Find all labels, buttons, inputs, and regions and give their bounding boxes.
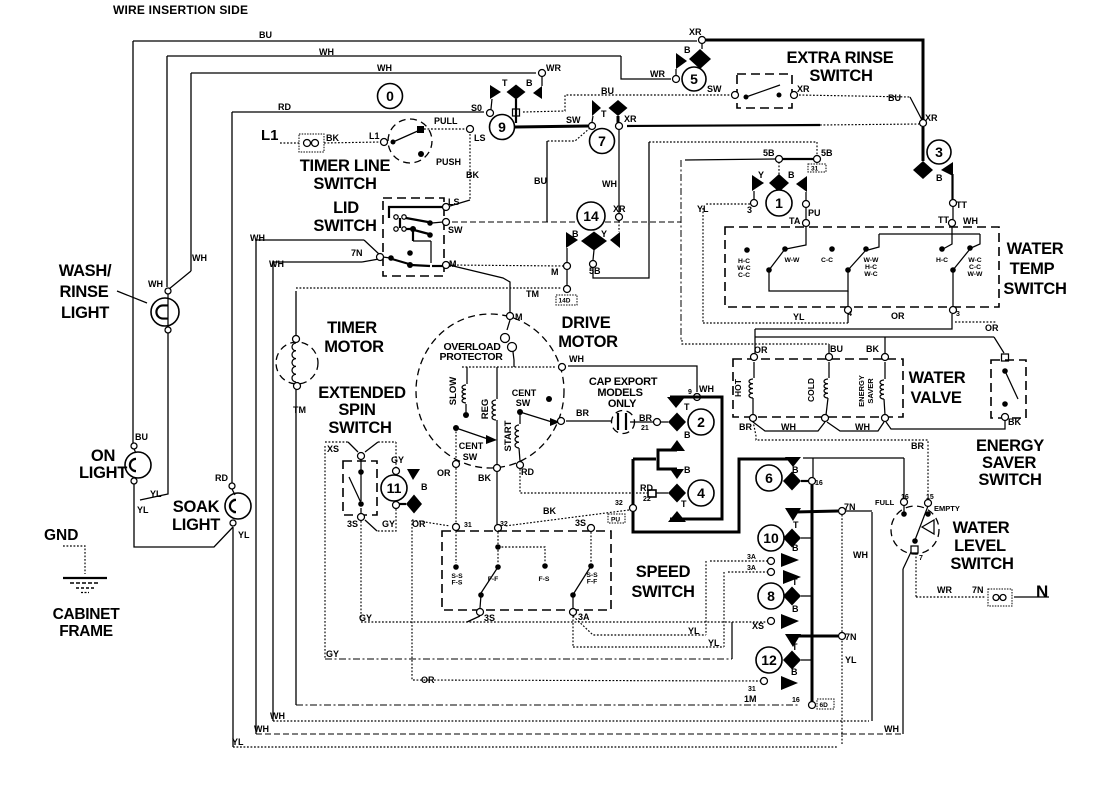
svg-text:LS: LS xyxy=(448,197,460,207)
svg-text:LIGHT: LIGHT xyxy=(79,464,127,482)
svg-text:SWITCH: SWITCH xyxy=(313,217,376,235)
svg-text:ON: ON xyxy=(91,447,115,465)
svg-text:LIGHT: LIGHT xyxy=(172,516,220,534)
svg-text:H-C: H-C xyxy=(936,257,948,264)
svg-text:W-C: W-C xyxy=(737,265,751,272)
svg-text:3S: 3S xyxy=(484,613,495,623)
svg-text:11: 11 xyxy=(387,480,402,496)
svg-text:31: 31 xyxy=(811,166,819,173)
svg-text:LID: LID xyxy=(333,199,359,217)
svg-text:LS: LS xyxy=(474,133,486,143)
svg-text:MOTOR: MOTOR xyxy=(324,338,384,356)
svg-text:FULL: FULL xyxy=(875,498,895,507)
svg-text:TM: TM xyxy=(526,289,539,299)
svg-text:SW: SW xyxy=(516,398,531,408)
svg-text:RD: RD xyxy=(521,467,534,477)
svg-text:WH: WH xyxy=(855,422,870,432)
svg-text:7N: 7N xyxy=(845,632,857,642)
svg-text:PROTECTOR: PROTECTOR xyxy=(439,351,503,363)
svg-text:SPIN: SPIN xyxy=(338,401,375,419)
svg-text:3A: 3A xyxy=(578,612,590,622)
svg-text:WATER: WATER xyxy=(1007,240,1064,258)
svg-text:GY: GY xyxy=(382,519,395,529)
svg-text:WH: WH xyxy=(699,384,714,394)
svg-text:BU: BU xyxy=(830,344,843,354)
svg-text:16: 16 xyxy=(815,480,823,487)
svg-text:31: 31 xyxy=(748,686,756,693)
svg-text:W-W: W-W xyxy=(785,257,801,264)
svg-text:WASH/: WASH/ xyxy=(59,262,112,280)
svg-text:RD: RD xyxy=(278,102,291,112)
svg-text:3: 3 xyxy=(747,205,752,215)
svg-text:B: B xyxy=(792,543,799,553)
svg-text:XS: XS xyxy=(752,621,764,631)
svg-text:32: 32 xyxy=(500,521,508,528)
svg-text:F-S: F-S xyxy=(452,580,463,587)
svg-text:S0: S0 xyxy=(471,103,482,113)
svg-text:BR: BR xyxy=(739,422,752,432)
svg-text:WH: WH xyxy=(963,216,978,226)
svg-text:RINSE: RINSE xyxy=(60,283,109,301)
svg-text:YL: YL xyxy=(238,530,250,540)
svg-text:COLD: COLD xyxy=(806,378,816,402)
svg-text:T: T xyxy=(793,520,799,530)
svg-text:7N: 7N xyxy=(351,248,363,258)
svg-text:WR: WR xyxy=(546,63,561,73)
svg-text:3S: 3S xyxy=(347,519,358,529)
svg-text:L1: L1 xyxy=(369,131,380,141)
svg-text:32: 32 xyxy=(615,500,623,507)
svg-text:10: 10 xyxy=(763,530,779,546)
svg-text:BU: BU xyxy=(534,176,547,186)
svg-text:WH: WH xyxy=(254,724,269,734)
svg-text:SWITCH: SWITCH xyxy=(1003,280,1066,298)
svg-text:YL: YL xyxy=(150,489,162,499)
svg-text:1: 1 xyxy=(775,195,783,211)
svg-text:16: 16 xyxy=(792,697,800,704)
svg-text:W-W: W-W xyxy=(864,257,880,264)
svg-text:L1: L1 xyxy=(261,127,279,144)
svg-text:SWITCH: SWITCH xyxy=(328,419,391,437)
svg-text:SW: SW xyxy=(566,115,581,125)
svg-text:3: 3 xyxy=(956,311,960,318)
svg-text:4: 4 xyxy=(848,311,852,318)
svg-text:YL: YL xyxy=(793,312,805,322)
svg-text:WR: WR xyxy=(650,69,665,79)
svg-text:VALVE: VALVE xyxy=(910,389,961,407)
svg-text:GND: GND xyxy=(44,527,78,544)
svg-text:Y: Y xyxy=(758,170,764,180)
svg-text:5B: 5B xyxy=(763,148,775,158)
svg-text:7: 7 xyxy=(598,133,606,149)
svg-text:SWITCH: SWITCH xyxy=(809,67,872,85)
svg-text:XR: XR xyxy=(624,114,637,124)
svg-text:T: T xyxy=(681,499,687,509)
svg-text:Y: Y xyxy=(601,229,607,239)
svg-text:14: 14 xyxy=(583,208,599,224)
svg-text:TM: TM xyxy=(293,405,306,415)
svg-text:5B: 5B xyxy=(821,148,833,158)
svg-text:EMPTY: EMPTY xyxy=(934,504,960,513)
svg-text:B: B xyxy=(684,465,691,475)
svg-text:SPEED: SPEED xyxy=(636,563,691,581)
svg-text:OR: OR xyxy=(754,345,768,355)
svg-text:TIMER: TIMER xyxy=(327,319,377,337)
svg-text:TEMP: TEMP xyxy=(1010,260,1055,278)
svg-text:F-F: F-F xyxy=(488,576,499,583)
svg-text:XS: XS xyxy=(327,444,339,454)
svg-text:YL: YL xyxy=(688,626,700,636)
svg-text:14D: 14D xyxy=(559,298,571,305)
svg-text:ENERGY: ENERGY xyxy=(857,375,866,407)
svg-text:GY: GY xyxy=(391,455,404,465)
svg-text:BK: BK xyxy=(466,170,479,180)
svg-text:T: T xyxy=(792,577,798,587)
svg-text:T: T xyxy=(684,402,690,412)
svg-text:SAVER: SAVER xyxy=(982,454,1037,472)
svg-text:4: 4 xyxy=(697,485,705,501)
svg-text:TA: TA xyxy=(789,216,801,226)
svg-text:EXTRA RINSE: EXTRA RINSE xyxy=(786,49,893,67)
svg-text:B: B xyxy=(936,173,943,183)
svg-text:3: 3 xyxy=(935,144,943,160)
svg-text:WH: WH xyxy=(148,279,163,289)
svg-text:T: T xyxy=(601,109,607,119)
svg-text:7: 7 xyxy=(919,555,923,562)
svg-text:SW: SW xyxy=(707,84,722,94)
svg-text:2: 2 xyxy=(697,414,705,430)
svg-text:LEVEL: LEVEL xyxy=(954,537,1006,555)
svg-text:WH: WH xyxy=(377,63,392,73)
svg-text:T: T xyxy=(792,642,798,652)
svg-text:BU: BU xyxy=(259,30,272,40)
svg-text:BK: BK xyxy=(1008,417,1021,427)
svg-text:WATER: WATER xyxy=(953,519,1010,537)
svg-text:B: B xyxy=(788,170,795,180)
svg-text:8: 8 xyxy=(767,588,775,604)
svg-text:WH: WH xyxy=(269,259,284,269)
svg-text:WH: WH xyxy=(569,354,584,364)
svg-text:3A: 3A xyxy=(747,565,756,572)
svg-text:YL: YL xyxy=(232,737,244,747)
svg-text:PULL: PULL xyxy=(434,116,458,126)
svg-text:RD: RD xyxy=(640,483,653,493)
svg-text:WH: WH xyxy=(250,233,265,243)
svg-text:7N: 7N xyxy=(844,502,856,512)
svg-text:W-C: W-C xyxy=(864,271,878,278)
svg-text:CABINET: CABINET xyxy=(53,606,121,623)
svg-text:WH: WH xyxy=(319,47,334,57)
svg-text:DRIVE: DRIVE xyxy=(562,314,611,332)
svg-text:CENT: CENT xyxy=(512,388,537,398)
svg-text:B: B xyxy=(791,667,798,677)
svg-text:BU: BU xyxy=(135,432,148,442)
svg-text:C-C: C-C xyxy=(738,272,750,279)
svg-text:GY: GY xyxy=(359,613,372,623)
svg-text:OR: OR xyxy=(891,311,905,321)
svg-text:BK: BK xyxy=(866,344,879,354)
svg-text:BU: BU xyxy=(601,86,614,96)
svg-text:XR: XR xyxy=(797,84,810,94)
svg-text:PU: PU xyxy=(808,208,821,218)
svg-text:SOAK: SOAK xyxy=(173,498,220,516)
svg-text:TT: TT xyxy=(938,215,949,225)
svg-text:T: T xyxy=(502,78,508,88)
svg-text:SWITCH: SWITCH xyxy=(950,555,1013,573)
svg-text:F-F: F-F xyxy=(587,579,598,586)
svg-text:WH: WH xyxy=(602,179,617,189)
svg-text:B: B xyxy=(684,430,691,440)
svg-text:7N: 7N xyxy=(972,585,984,595)
svg-text:SWITCH: SWITCH xyxy=(978,471,1041,489)
svg-text:OR: OR xyxy=(985,323,999,333)
svg-text:B: B xyxy=(792,465,799,475)
svg-text:SW: SW xyxy=(448,225,463,235)
svg-text:WR: WR xyxy=(937,585,952,595)
svg-text:FRAME: FRAME xyxy=(59,623,113,640)
svg-text:B: B xyxy=(421,482,428,492)
svg-text:SAVER: SAVER xyxy=(866,378,875,404)
svg-text:EXTENDED: EXTENDED xyxy=(318,384,406,402)
svg-text:M: M xyxy=(551,267,559,277)
svg-text:WH: WH xyxy=(192,253,207,263)
svg-text:CENT: CENT xyxy=(459,441,484,451)
svg-text:C-C: C-C xyxy=(969,264,981,271)
svg-text:W-C: W-C xyxy=(968,257,982,264)
svg-text:RD: RD xyxy=(215,473,228,483)
svg-text:BK: BK xyxy=(326,133,339,143)
svg-text:YL: YL xyxy=(845,655,857,665)
svg-text:BK: BK xyxy=(478,473,491,483)
svg-text:WATER: WATER xyxy=(909,369,966,387)
svg-text:YL: YL xyxy=(697,204,709,214)
svg-text:PUSH: PUSH xyxy=(436,157,461,167)
svg-text:SWITCH: SWITCH xyxy=(631,583,694,601)
svg-text:B: B xyxy=(572,229,579,239)
svg-text:6D: 6D xyxy=(820,702,829,709)
svg-text:SLOW: SLOW xyxy=(448,377,459,406)
svg-text:XR: XR xyxy=(925,113,938,123)
svg-text:SW: SW xyxy=(463,452,478,462)
svg-text:OR: OR xyxy=(421,675,435,685)
svg-text:TT: TT xyxy=(956,200,967,210)
svg-text:WH: WH xyxy=(884,724,899,734)
svg-text:5B: 5B xyxy=(589,266,601,276)
svg-text:WIRE INSERTION SIDE: WIRE INSERTION SIDE xyxy=(113,3,248,17)
svg-text:31: 31 xyxy=(464,522,472,529)
svg-text:OR: OR xyxy=(412,519,426,529)
svg-text:XR: XR xyxy=(613,204,626,214)
svg-text:ONLY: ONLY xyxy=(608,398,637,410)
svg-text:B: B xyxy=(684,45,691,55)
svg-text:9: 9 xyxy=(688,389,692,396)
svg-text:START: START xyxy=(503,420,514,451)
svg-text:WH: WH xyxy=(853,550,868,560)
svg-text:PU: PU xyxy=(611,517,620,524)
svg-text:12: 12 xyxy=(761,652,777,668)
svg-text:F-S: F-S xyxy=(539,576,550,583)
svg-text:WH: WH xyxy=(781,422,796,432)
svg-text:M: M xyxy=(449,259,457,269)
svg-text:YL: YL xyxy=(137,505,149,515)
svg-text:GY: GY xyxy=(326,649,339,659)
svg-text:LIGHT: LIGHT xyxy=(61,304,109,322)
svg-text:H-C: H-C xyxy=(738,258,750,265)
svg-text:ENERGY: ENERGY xyxy=(976,437,1044,455)
svg-text:21: 21 xyxy=(641,425,649,432)
svg-text:H-C: H-C xyxy=(865,264,877,271)
svg-text:BR: BR xyxy=(911,441,924,451)
svg-text:M: M xyxy=(515,312,523,322)
svg-text:BR: BR xyxy=(639,413,652,423)
svg-text:W-W: W-W xyxy=(968,271,984,278)
svg-text:TIMER LINE: TIMER LINE xyxy=(300,157,391,175)
svg-text:1M: 1M xyxy=(744,694,757,704)
svg-text:0: 0 xyxy=(386,88,394,104)
svg-text:16: 16 xyxy=(901,494,909,501)
svg-text:5: 5 xyxy=(690,71,698,87)
svg-text:OR: OR xyxy=(437,468,451,478)
svg-text:15: 15 xyxy=(926,494,934,501)
svg-text:XR: XR xyxy=(689,27,702,37)
svg-text:22: 22 xyxy=(643,496,651,503)
svg-text:YL: YL xyxy=(708,638,720,648)
svg-text:MOTOR: MOTOR xyxy=(558,333,618,351)
svg-text:SWITCH: SWITCH xyxy=(313,175,376,193)
svg-text:3A: 3A xyxy=(747,554,756,561)
svg-text:C-C: C-C xyxy=(821,257,833,264)
svg-text:WH: WH xyxy=(270,711,285,721)
svg-text:3S: 3S xyxy=(575,518,586,528)
svg-text:BR: BR xyxy=(576,408,589,418)
svg-text:6: 6 xyxy=(765,470,773,486)
svg-text:B: B xyxy=(792,604,799,614)
svg-text:REG: REG xyxy=(480,399,491,420)
svg-text:9: 9 xyxy=(498,119,506,135)
svg-text:HOT: HOT xyxy=(733,378,743,397)
svg-text:B: B xyxy=(526,78,533,88)
svg-text:BK: BK xyxy=(543,506,556,516)
svg-text:N: N xyxy=(1036,582,1048,601)
svg-text:BU: BU xyxy=(888,93,901,103)
